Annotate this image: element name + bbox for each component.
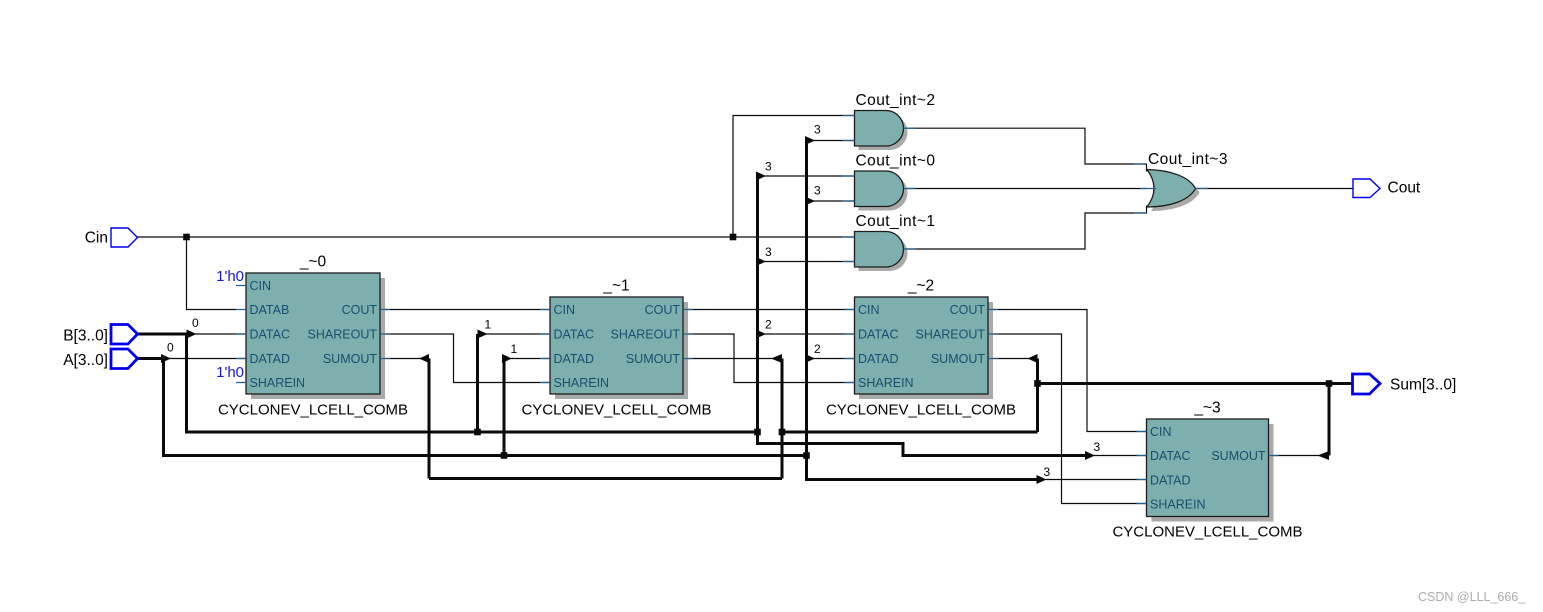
- svg-text:DATAC: DATAC: [858, 328, 899, 342]
- wire bus A riser x806.5 with taps and route to _~3 DATAD: [807, 141, 1039, 480]
- arrow B[1] tap: [478, 330, 488, 339]
- node Cin junction at x186.5: [183, 234, 190, 241]
- svg-text:0: 0: [192, 316, 199, 330]
- svg-text:SHAREIN: SHAREIN: [858, 376, 914, 390]
- output pin Cout: [1353, 179, 1421, 198]
- svg-text:DATAB: DATAB: [250, 303, 290, 317]
- wire _~1 SUMOUT to Sum bus join: [683, 358, 773, 360]
- svg-text:DATAD: DATAD: [554, 352, 595, 366]
- lcell U2 _~2 CYCLONEV_LCELL_COMB: [826, 278, 1016, 419]
- svg-text:3: 3: [814, 184, 821, 198]
- svg-text:CIN: CIN: [250, 279, 272, 293]
- svg-text:0: 0: [167, 341, 174, 355]
- svg-text:2: 2: [814, 342, 821, 356]
- wire B[3] tap to AND gate Cout_int~1 bottom input: [764, 261, 855, 263]
- input pin A[3..0]: [63, 349, 137, 369]
- node junction Sum collector at x782 y432: [779, 429, 786, 436]
- svg-text:Sum[3..0]: Sum[3..0]: [1390, 377, 1456, 394]
- arrow _~0 SUMOUT into Sum collector: [419, 354, 429, 363]
- svg-text:3: 3: [765, 245, 772, 259]
- wire A[1] tap to _~1 DATAD: [510, 358, 550, 360]
- svg-text:Cout: Cout: [1388, 180, 1421, 197]
- arrow A[1] tap: [502, 354, 512, 363]
- wire B[0] tap to _~0 DATAC: [194, 333, 246, 335]
- svg-text:DATAD: DATAD: [250, 352, 291, 366]
- arrow A[3] tap to Cout_int~2: [805, 136, 815, 145]
- wire _~0 SUMOUT to Sum bus join: [380, 358, 421, 360]
- wire _~0 COUT to _~1 CIN: [380, 309, 550, 311]
- svg-text:DATAD: DATAD: [1150, 474, 1191, 488]
- output pin Sum[3..0]: [1353, 374, 1457, 394]
- wire A[2] tap to _~2 DATAD: [813, 358, 855, 360]
- wire bus A[3..0] from pin down and right along y455.5: [138, 359, 807, 456]
- svg-text:SUMOUT: SUMOUT: [626, 352, 681, 366]
- arrow A[3] tap to Cout_int~0: [805, 197, 815, 206]
- wire Cin branch up to AND gate Cout_int~2 top input: [733, 116, 855, 238]
- svg-text:SHAREIN: SHAREIN: [1150, 498, 1206, 512]
- wire B[2] tap to _~2 DATAC: [764, 333, 855, 335]
- svg-text:3: 3: [1094, 440, 1101, 454]
- node junction Sum bus at x1037.5: [1034, 380, 1041, 387]
- svg-text:1: 1: [511, 342, 518, 356]
- wire bus Sum collector y432 from x782 to x1037.5: [782, 431, 1038, 434]
- svg-text:Cout_int~1: Cout_int~1: [856, 213, 936, 230]
- node junction A bus at A[1] riser: [501, 452, 508, 459]
- wire bus Sum collector riser x1037.5 from _~2 SUMOUT: [1036, 359, 1039, 433]
- wire bus B riser x757.5 with taps and route to _~3 DATAC: [758, 176, 1087, 456]
- lcell U1 _~1 CYCLONEV_LCELL_COMB: [521, 278, 711, 419]
- wire _~2 COUT to _~3 CIN: [988, 310, 1147, 432]
- wire bus Sum collector riser x782 from _~1 SUMOUT: [781, 359, 784, 479]
- svg-text:Cout_int~0: Cout_int~0: [856, 153, 936, 170]
- svg-text:Cin: Cin: [85, 230, 108, 247]
- svg-text:_~1: _~1: [602, 278, 629, 295]
- wire _~1 COUT to _~2 CIN: [683, 309, 855, 311]
- node junction B bus at B riser x757.5: [754, 429, 761, 436]
- svg-text:SUMOUT: SUMOUT: [1211, 449, 1266, 463]
- svg-text:CIN: CIN: [858, 303, 880, 317]
- wire B[3] tap to AND gate Cout_int~0 top input: [764, 175, 855, 177]
- arrow A[2] tap: [805, 354, 815, 363]
- arrow B[0] tap: [187, 330, 197, 339]
- svg-text:CSDN @LLL_666_: CSDN @LLL_666_: [1418, 590, 1526, 604]
- svg-text:CYCLONEV_LCELL_COMB: CYCLONEV_LCELL_COMB: [521, 402, 711, 419]
- svg-text:_~3: _~3: [1193, 400, 1220, 417]
- wire bus A[1] tap riser x504: [503, 359, 506, 456]
- svg-text:A[3..0]: A[3..0]: [63, 352, 108, 369]
- svg-text:SHAREIN: SHAREIN: [250, 376, 306, 390]
- svg-text:COUT: COUT: [342, 303, 378, 317]
- svg-text:1'h0: 1'h0: [216, 364, 244, 381]
- arrow _~1 SUMOUT into Sum collector: [771, 354, 782, 363]
- wire A[3] tap to _~3 DATAD: [1046, 479, 1147, 481]
- svg-text:_~2: _~2: [907, 278, 934, 295]
- arrow B[3] tap to Cout_int~0: [756, 172, 766, 181]
- node junction A bus at A riser x806.5: [803, 452, 810, 459]
- wire bus Sum[3..0] main to output pin: [1038, 382, 1353, 385]
- svg-text:SHAREOUT: SHAREOUT: [916, 328, 986, 342]
- svg-text:B[3..0]: B[3..0]: [63, 328, 108, 345]
- svg-text:_~0: _~0: [299, 254, 327, 271]
- wire A[3] tap to AND gate Cout_int~2 bottom input: [813, 140, 855, 142]
- input pin B[3..0]: [63, 325, 137, 345]
- node junction B bus at B[1] riser: [474, 429, 481, 436]
- wire bus B[1] tap riser x477.5: [476, 334, 479, 432]
- wire Cin net horizontal to AND gate Cout_int~1 top input: [138, 236, 855, 238]
- arrow _~3 SUMOUT into Sum collector: [1318, 451, 1330, 460]
- svg-text:SUMOUT: SUMOUT: [931, 352, 986, 366]
- and-gate G1 Cout_int~1: [843, 213, 936, 271]
- wire _~3 SUMOUT to Sum bus join: [1269, 455, 1321, 457]
- svg-text:SHAREIN: SHAREIN: [554, 376, 610, 390]
- svg-text:1: 1: [485, 318, 492, 332]
- svg-text:Cout_int~3: Cout_int~3: [1148, 151, 1228, 168]
- svg-text:COUT: COUT: [645, 303, 681, 317]
- and-gate G0 Cout_int~0: [843, 153, 936, 211]
- arrow A[3] tap to _~3 DATAD: [1037, 475, 1047, 484]
- arrow B[3] tap to _~3 DATAC: [1085, 451, 1095, 460]
- svg-text:SUMOUT: SUMOUT: [323, 352, 378, 366]
- wire Cout_int~1 output to OR gate bottom input: [904, 206, 1147, 250]
- wire bus Sum collector riser x1329 from _~3 SUMOUT: [1328, 384, 1331, 456]
- svg-text:2: 2: [765, 318, 772, 332]
- and-gate G2 Cout_int~2: [843, 92, 936, 150]
- wire bus B[3..0] from pin down and right along y432: [138, 334, 758, 432]
- arrow A[0] tap: [161, 354, 171, 363]
- arrow B[3] tap to Cout_int~1: [756, 257, 766, 266]
- svg-text:SHAREOUT: SHAREOUT: [308, 328, 378, 342]
- node junction Sum bus at x1329: [1326, 380, 1333, 387]
- svg-text:3: 3: [1044, 465, 1051, 479]
- or-gate G3 Cout_int~3: [1134, 151, 1228, 213]
- svg-text:3: 3: [814, 123, 821, 137]
- wire Cin branch down to _~0 DATAB: [187, 237, 237, 310]
- lcell U3 _~3 CYCLONEV_LCELL_COMB: [1112, 400, 1302, 541]
- svg-text:1'h0: 1'h0: [216, 268, 244, 285]
- svg-text:COUT: COUT: [950, 303, 986, 317]
- wire Cout_int~0 output to OR gate middle input: [904, 188, 1148, 190]
- svg-text:CYCLONEV_LCELL_COMB: CYCLONEV_LCELL_COMB: [1112, 524, 1302, 541]
- wire Cout_int~2 output to OR gate top input: [904, 128, 1147, 171]
- wire B[3] tap to _~3 DATAC: [1094, 455, 1147, 457]
- wire bus Sum collector bottom y478.5: [429, 477, 782, 480]
- wire B[1] tap to _~1 DATAC: [485, 333, 550, 335]
- svg-text:3: 3: [765, 160, 772, 174]
- wire Cout_int~3 output to Cout pin: [1196, 188, 1354, 190]
- wire A[3] tap to AND gate Cout_int~0 bottom input: [813, 200, 855, 202]
- wire _~2 SUMOUT to Sum bus join: [988, 358, 1030, 360]
- wire _~1 SHAREOUT to _~2 SHAREIN: [683, 334, 855, 383]
- wire bus Sum collector riser x429 from _~0 SUMOUT: [428, 359, 431, 479]
- arrow B[2] tap: [756, 330, 766, 339]
- svg-text:CIN: CIN: [1150, 425, 1172, 439]
- wire _~2 SHAREOUT to _~3 SHAREIN: [988, 334, 1147, 504]
- wire _~0 SHAREOUT to _~1 SHAREIN: [380, 334, 550, 383]
- svg-text:DATAC: DATAC: [1150, 449, 1191, 463]
- svg-text:CYCLONEV_LCELL_COMB: CYCLONEV_LCELL_COMB: [826, 402, 1016, 419]
- arrow _~2 SUMOUT into Sum collector: [1028, 354, 1038, 363]
- svg-text:Cout_int~2: Cout_int~2: [856, 92, 936, 109]
- node Cin junction at x733: [730, 234, 737, 241]
- wire A[0] tap to _~0 DATAD: [169, 358, 246, 360]
- svg-text:DATAC: DATAC: [554, 328, 595, 342]
- svg-text:SHAREOUT: SHAREOUT: [611, 328, 681, 342]
- input pin Cin: [85, 228, 138, 247]
- lcell U0 _~0 CYCLONEV_LCELL_COMB: [218, 254, 408, 419]
- svg-text:DATAC: DATAC: [250, 328, 291, 342]
- svg-text:DATAD: DATAD: [858, 352, 899, 366]
- svg-text:CIN: CIN: [554, 303, 576, 317]
- svg-text:CYCLONEV_LCELL_COMB: CYCLONEV_LCELL_COMB: [218, 402, 408, 419]
